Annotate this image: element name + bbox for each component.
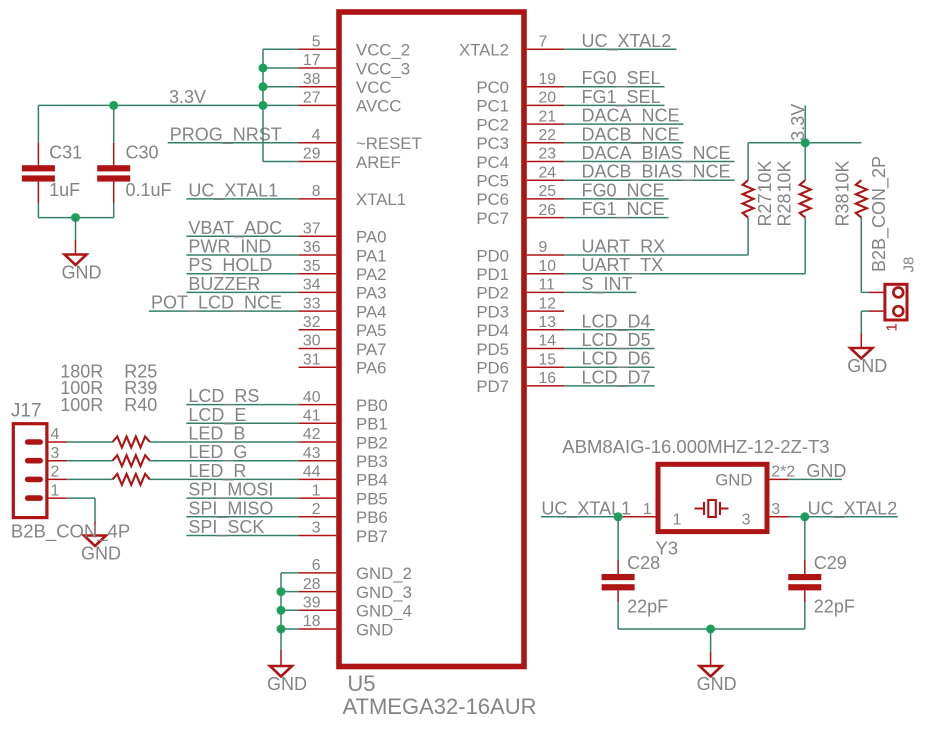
svg-text:R27: R27 — [755, 193, 775, 226]
svg-text:4: 4 — [51, 426, 60, 443]
svg-text:GND: GND — [715, 471, 752, 490]
svg-text:22: 22 — [539, 127, 557, 144]
svg-text:PD6: PD6 — [476, 359, 509, 378]
svg-text:44: 44 — [303, 464, 321, 481]
svg-text:2*2: 2*2 — [771, 464, 795, 481]
svg-text:33: 33 — [303, 295, 321, 312]
svg-text:C28: C28 — [627, 553, 660, 573]
svg-text:U5: U5 — [347, 671, 375, 696]
svg-text:PA3: PA3 — [356, 284, 386, 303]
svg-text:GND: GND — [62, 263, 102, 283]
svg-text:~RESET: ~RESET — [356, 134, 422, 153]
svg-text:LCD_D7: LCD_D7 — [582, 367, 651, 388]
svg-text:2: 2 — [312, 501, 321, 518]
svg-text:13: 13 — [539, 314, 557, 331]
svg-text:PD4: PD4 — [476, 321, 509, 340]
svg-text:8: 8 — [312, 183, 321, 200]
svg-text:35: 35 — [303, 258, 321, 275]
svg-text:VCC_2: VCC_2 — [356, 41, 410, 60]
svg-text:GND_4: GND_4 — [356, 602, 412, 621]
svg-text:3: 3 — [312, 520, 321, 537]
svg-text:PC0: PC0 — [476, 78, 509, 97]
svg-text:PC7: PC7 — [476, 209, 509, 228]
svg-text:J8: J8 — [901, 257, 918, 273]
svg-text:37: 37 — [303, 221, 321, 238]
svg-text:AREF: AREF — [356, 153, 401, 172]
svg-text:UC_XTAL2: UC_XTAL2 — [582, 31, 672, 52]
svg-text:VCC_3: VCC_3 — [356, 59, 410, 78]
svg-text:PA0: PA0 — [356, 228, 386, 247]
svg-text:40: 40 — [303, 389, 321, 406]
svg-text:GND: GND — [697, 674, 737, 694]
svg-text:GND: GND — [847, 356, 887, 376]
svg-text:PC1: PC1 — [476, 97, 509, 116]
svg-text:C31: C31 — [49, 143, 82, 163]
svg-text:27: 27 — [303, 90, 321, 107]
svg-text:UC_XTAL1: UC_XTAL1 — [188, 180, 278, 201]
svg-text:PD3: PD3 — [476, 302, 509, 321]
svg-text:1: 1 — [643, 501, 652, 518]
svg-text:PA1: PA1 — [356, 246, 386, 265]
svg-text:GND: GND — [267, 674, 307, 694]
svg-text:20: 20 — [539, 90, 557, 107]
svg-text:6: 6 — [312, 557, 321, 574]
svg-text:10K: 10K — [755, 160, 775, 192]
svg-text:PB5: PB5 — [356, 489, 388, 508]
svg-text:UC_XTAL2: UC_XTAL2 — [808, 498, 898, 519]
svg-text:39: 39 — [303, 595, 321, 612]
svg-text:22pF: 22pF — [814, 597, 855, 617]
svg-text:17: 17 — [303, 52, 321, 69]
svg-text:GND: GND — [356, 620, 393, 639]
svg-text:9: 9 — [539, 239, 548, 256]
svg-text:42: 42 — [303, 426, 321, 443]
svg-text:B2B_CON_4P: B2B_CON_4P — [11, 521, 130, 543]
svg-text:GND_3: GND_3 — [356, 583, 412, 602]
svg-text:22pF: 22pF — [627, 597, 668, 617]
svg-text:3: 3 — [51, 445, 60, 462]
svg-text:S_INT: S_INT — [582, 274, 633, 295]
svg-text:12: 12 — [539, 295, 557, 312]
svg-text:3: 3 — [742, 512, 751, 529]
svg-text:PD2: PD2 — [476, 284, 509, 303]
svg-text:SPI_SCK: SPI_SCK — [188, 517, 264, 538]
svg-text:R38: R38 — [833, 193, 853, 226]
svg-text:28: 28 — [303, 576, 321, 593]
svg-text:PD7: PD7 — [476, 377, 509, 396]
svg-text:PA2: PA2 — [356, 265, 386, 284]
svg-text:1uF: 1uF — [49, 180, 80, 200]
svg-text:C29: C29 — [814, 553, 847, 573]
svg-text:UART_TX: UART_TX — [582, 255, 664, 276]
svg-text:16: 16 — [539, 370, 557, 387]
svg-text:LED_R: LED_R — [188, 461, 246, 482]
svg-text:PB6: PB6 — [356, 508, 388, 527]
svg-text:23: 23 — [539, 146, 557, 163]
svg-text:PROG_NRST: PROG_NRST — [170, 124, 282, 145]
svg-text:21: 21 — [539, 108, 557, 125]
svg-text:30: 30 — [303, 333, 321, 350]
svg-text:38: 38 — [303, 71, 321, 88]
svg-text:4: 4 — [312, 127, 321, 144]
svg-text:3.3V: 3.3V — [169, 87, 206, 107]
svg-text:PB7: PB7 — [356, 527, 388, 546]
svg-text:PB0: PB0 — [356, 396, 388, 415]
svg-text:10K: 10K — [775, 160, 795, 192]
svg-text:2: 2 — [51, 464, 60, 481]
svg-text:31: 31 — [303, 351, 321, 368]
svg-text:R28: R28 — [775, 193, 795, 226]
svg-text:PA7: PA7 — [356, 340, 386, 359]
svg-text:0.1uF: 0.1uF — [126, 180, 172, 200]
svg-text:PB3: PB3 — [356, 452, 388, 471]
svg-text:7: 7 — [539, 34, 548, 51]
svg-text:PB1: PB1 — [356, 415, 388, 434]
svg-text:B2B_CON_2P: B2B_CON_2P — [869, 156, 890, 272]
svg-text:PB2: PB2 — [356, 433, 388, 452]
svg-text:GND_2: GND_2 — [356, 564, 412, 583]
svg-text:PD0: PD0 — [476, 246, 509, 265]
svg-text:ATMEGA32-16AUR: ATMEGA32-16AUR — [343, 694, 537, 719]
svg-text:43: 43 — [303, 445, 321, 462]
svg-text:36: 36 — [303, 239, 321, 256]
svg-text:AVCC: AVCC — [356, 97, 401, 116]
svg-text:C30: C30 — [126, 143, 159, 163]
svg-text:PA4: PA4 — [356, 302, 386, 321]
svg-text:XTAL2: XTAL2 — [459, 41, 509, 60]
svg-text:32: 32 — [303, 314, 321, 331]
svg-text:GND: GND — [806, 461, 846, 481]
svg-text:XTAL1: XTAL1 — [356, 190, 406, 209]
svg-text:1: 1 — [51, 482, 60, 499]
svg-text:11: 11 — [539, 277, 556, 294]
svg-text:24: 24 — [539, 164, 557, 181]
svg-text:J17: J17 — [11, 401, 42, 422]
svg-text:PC4: PC4 — [476, 153, 509, 172]
svg-text:1: 1 — [312, 482, 321, 499]
svg-text:19: 19 — [539, 71, 557, 88]
svg-text:1: 1 — [883, 323, 900, 331]
svg-text:GND: GND — [81, 544, 121, 564]
svg-text:PA6: PA6 — [356, 359, 386, 378]
svg-text:41: 41 — [303, 408, 321, 425]
svg-text:R40: R40 — [124, 395, 157, 415]
svg-text:34: 34 — [303, 277, 321, 294]
svg-text:3.3V: 3.3V — [788, 104, 808, 141]
svg-text:PC3: PC3 — [476, 134, 509, 153]
svg-text:PA5: PA5 — [356, 321, 386, 340]
svg-text:FG1_NCE: FG1_NCE — [582, 199, 665, 220]
svg-text:VCC: VCC — [356, 78, 391, 97]
svg-text:PD5: PD5 — [476, 340, 509, 359]
svg-text:ABM8AIG-16.000MHZ-12-2Z-T3: ABM8AIG-16.000MHZ-12-2Z-T3 — [562, 436, 829, 457]
svg-text:PB4: PB4 — [356, 471, 388, 490]
svg-text:10: 10 — [539, 258, 557, 275]
svg-text:3: 3 — [771, 501, 780, 518]
svg-text:5: 5 — [312, 34, 321, 51]
svg-text:POT_LCD_NCE: POT_LCD_NCE — [151, 293, 282, 314]
svg-text:10K: 10K — [833, 160, 853, 192]
svg-text:29: 29 — [303, 146, 321, 163]
svg-text:18: 18 — [303, 613, 321, 630]
svg-text:PC5: PC5 — [476, 172, 509, 191]
svg-text:25: 25 — [539, 183, 557, 200]
svg-text:14: 14 — [539, 333, 557, 350]
svg-text:15: 15 — [539, 351, 557, 368]
svg-text:BUZZER: BUZZER — [188, 274, 260, 294]
svg-text:PD1: PD1 — [476, 265, 509, 284]
svg-text:26: 26 — [539, 202, 557, 219]
svg-text:1: 1 — [673, 512, 682, 529]
svg-text:100R: 100R — [60, 395, 103, 415]
svg-text:PC6: PC6 — [476, 190, 509, 209]
svg-text:PC2: PC2 — [476, 115, 509, 134]
